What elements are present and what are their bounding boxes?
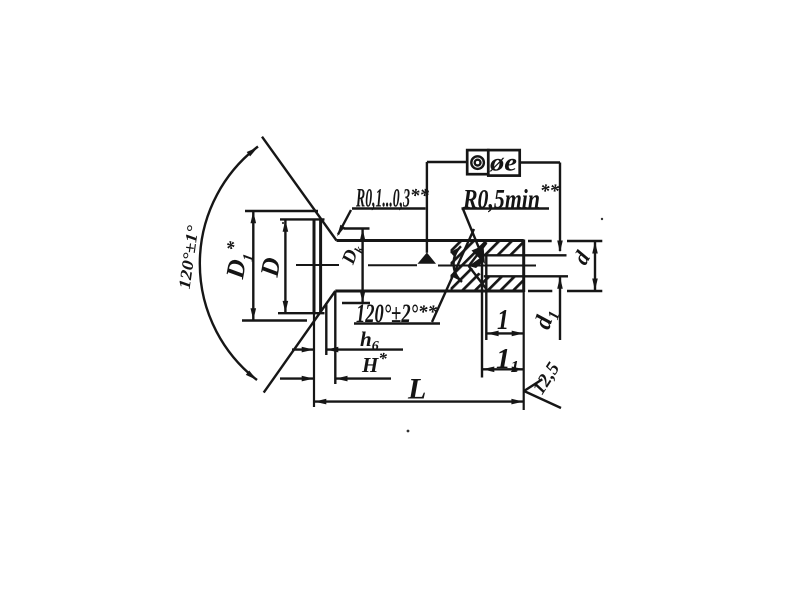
dimension Dk: dimension line + arrows [361,229,363,304]
dimension H*: dimension line + arrows [280,377,314,379]
shank top line [337,239,524,242]
dimension Dk: extension lines [344,227,370,229]
dimension l: extension line [485,256,487,340]
drill point angle arc with arrowheads [454,246,462,282]
scan specks [601,218,603,220]
drill cone top face [469,243,487,266]
drilled hole top wall + d1 top extension [484,254,567,256]
dimension d: dimension line + arrows [594,241,596,291]
dimension D: extension lines [280,218,325,220]
head cone bottom edge + construction line [264,291,336,393]
axis centerline [296,264,536,267]
frame left leader + datum triangle on axis [427,161,467,163]
shank bottom line [335,290,523,293]
dimension D: dimension line + arrows [284,219,286,313]
head face left edge + extension to L [313,219,316,314]
dimension h6: dimension line + arrows [292,348,314,350]
head face right edge [319,219,322,314]
dimension H*: junction extension line [334,292,336,384]
dimension d: extension lines [528,240,552,242]
hatched section of hollow rivet end [451,241,524,292]
svg-text:øe: øe [489,150,517,177]
120deg head angle arc [200,147,258,381]
dimension l1: dimension line + arrows [482,368,524,370]
dimension l1: extension line [481,256,483,378]
dimension h6: right extension line [325,303,327,355]
dimension L: dimension line + arrows [314,400,524,402]
drilled hole bottom wall + d1 bottom extension [484,275,568,277]
head cone top edge + construction line to 120deg apex [262,137,337,241]
frame right leader down to d1 extension [520,161,560,163]
dimension d1 lower line with up arrow [559,277,561,340]
svg-text:1: 1 [497,304,509,336]
drill cone bottom face [469,266,486,289]
feature control frame: concentricity [467,150,488,174]
svg-text:L: L [407,373,426,406]
arc arrowhead bottom [246,371,257,381]
dimension D1: dimension line + arrows [252,211,254,321]
rivet end face + extension down to L line [522,240,525,293]
dimension D1: extension lines [245,210,318,212]
arc arrowhead top [247,147,258,156]
dimension l: dimension line + arrows [486,332,524,334]
surface roughness mark 12,5 [524,379,542,391]
